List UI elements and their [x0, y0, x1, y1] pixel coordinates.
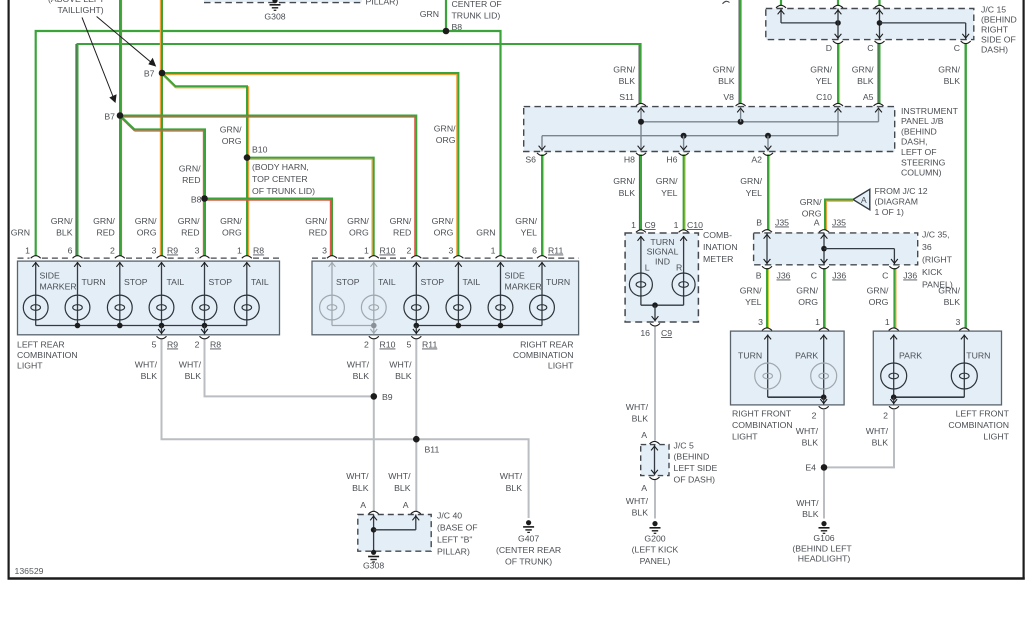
J/C 15 internal wiring: [778, 9, 970, 40]
wire GRN/BLK: J/C 15 pin C down right side to left front pin 3: [965, 43, 967, 328]
svg-text:5: 5: [152, 340, 157, 350]
svg-text:RIGHT: RIGHT: [981, 25, 1009, 35]
label GRN/ORG right branch: [434, 124, 456, 146]
label GRN/BLK V8: [713, 65, 735, 103]
svg-text:GRN/: GRN/: [220, 216, 242, 226]
bulb TURN right rear: [530, 295, 555, 320]
svg-text:GRN/: GRN/: [347, 216, 369, 226]
svg-text:COMBINATION: COMBINATION: [948, 420, 1009, 430]
svg-text:H6: H6: [666, 155, 677, 165]
svg-text:MARKER: MARKER: [505, 282, 542, 292]
svg-text:C10: C10: [816, 92, 832, 102]
svg-text:R10: R10: [380, 246, 396, 256]
svg-text:1: 1: [25, 246, 30, 256]
svg-text:YEL: YEL: [521, 228, 538, 238]
junction connector J/C 35,36 box: [754, 233, 918, 265]
svg-text:GRN/: GRN/: [938, 65, 960, 75]
bulb labels left front: [899, 351, 990, 361]
svg-text:BLK: BLK: [802, 438, 819, 448]
svg-text:METER: METER: [703, 254, 733, 264]
svg-text:TAIL: TAIL: [167, 277, 185, 287]
svg-text:ORG: ORG: [222, 136, 242, 146]
svg-text:LIGHT: LIGHT: [732, 432, 758, 442]
svg-text:GRN: GRN: [420, 9, 439, 19]
svg-text:GRN/: GRN/: [305, 216, 327, 226]
junction connector J/C 5 box: [641, 445, 669, 476]
label splice B7 lower: [104, 112, 115, 122]
svg-text:GRN/: GRN/: [852, 65, 874, 75]
label COMBINATION METER: [703, 230, 738, 264]
svg-text:A: A: [641, 430, 647, 440]
labels wire colors left rear: [11, 216, 243, 238]
svg-text:ORG: ORG: [222, 228, 242, 238]
svg-text:TURN: TURN: [966, 351, 990, 361]
label right front combination light: [732, 409, 793, 442]
svg-text:LIGHT: LIGHT: [548, 361, 574, 371]
svg-text:IND: IND: [655, 257, 670, 267]
svg-text:R9: R9: [167, 246, 178, 256]
svg-text:(BEHIND: (BEHIND: [981, 15, 1017, 25]
svg-text:J/C 15: J/C 15: [981, 5, 1006, 15]
wire GRN/RED stop branch: splice B7 lower via splice B8 to left pin 3: [120, 116, 205, 256]
svg-text:(BEHIND: (BEHIND: [674, 452, 710, 462]
svg-text:OF TRUNK): OF TRUNK): [505, 557, 552, 567]
splice E4: [821, 464, 828, 471]
svg-text:1: 1: [491, 246, 496, 256]
svg-text:BLK: BLK: [56, 228, 73, 238]
svg-text:LEFT FRONT: LEFT FRONT: [956, 409, 1010, 419]
svg-text:GRN/: GRN/: [390, 216, 412, 226]
svg-text:RIGHT FRONT: RIGHT FRONT: [732, 409, 792, 419]
right front combination light box: [731, 331, 845, 405]
label WHT/BLK R9: [135, 360, 158, 382]
bulb TAIL right rear (faded): [361, 295, 386, 320]
svg-text:BLK: BLK: [718, 76, 735, 86]
pin labels right rear bottom: [364, 340, 438, 350]
svg-text:S11: S11: [619, 92, 634, 102]
svg-text:ORG: ORG: [869, 297, 889, 307]
svg-text:BLK: BLK: [506, 483, 523, 493]
wire GRN/BLK: J/C 15 pin C down to J/B A5: [878, 43, 880, 103]
label WHT/BLK left front: [866, 426, 889, 448]
svg-text:A: A: [360, 500, 366, 510]
svg-text:6: 6: [532, 246, 537, 256]
svg-text:(BODY HARN,: (BODY HARN,: [252, 162, 309, 172]
svg-text:36: 36: [922, 242, 932, 252]
wire GRN/YEL: J/C 15 pin D down to J/B C10: [838, 43, 840, 103]
bulb SIDE MARKER left rear: [23, 295, 48, 320]
svg-text:RED: RED: [393, 228, 411, 238]
svg-text:GRN/: GRN/: [515, 216, 537, 226]
svg-text:WHT/: WHT/: [135, 360, 158, 370]
svg-text:R8: R8: [253, 246, 264, 256]
svg-text:BLK: BLK: [395, 371, 412, 381]
label G106: [792, 533, 852, 564]
wire GRN/ORG: J/C 36 pin C down to right front pin 1: [824, 268, 826, 328]
splice B9: [371, 393, 378, 400]
svg-text:INSTRUMENT: INSTRUMENT: [901, 106, 959, 116]
instrument panel J/B box: [524, 107, 895, 152]
label WHT/BLK R11: [389, 360, 412, 382]
label WHT/BLK lower right: [388, 471, 411, 493]
ground G106: [819, 521, 830, 533]
svg-text:GRN/: GRN/: [434, 124, 456, 134]
svg-text:B: B: [756, 218, 762, 228]
cut-off connector arc near top: [723, 1, 730, 4]
svg-text:C: C: [811, 271, 817, 281]
wire WHT/BLK: right rear pin 2 R10 down through splice B9 to J/C 40 pin A: [373, 340, 375, 512]
svg-text:STOP: STOP: [336, 277, 360, 287]
ground G308: [368, 550, 379, 562]
svg-text:C9: C9: [645, 220, 656, 230]
label WHT/BLK G407: [500, 471, 523, 493]
connector arcs: [31, 5, 971, 514]
left rear light internal wiring: [32, 262, 250, 334]
svg-text:ORG: ORG: [349, 228, 369, 238]
svg-text:3: 3: [758, 317, 763, 327]
bulb STOP 2 right rear: [404, 295, 429, 320]
svg-text:R10: R10: [380, 340, 396, 350]
label splice B7 upper: [144, 69, 155, 79]
svg-text:(LEFT KICK: (LEFT KICK: [632, 545, 679, 555]
label J/C 40 annotation: [437, 511, 478, 557]
leader arrow to splice B7 lower: [82, 17, 117, 103]
svg-text:G407: G407: [518, 534, 539, 544]
svg-text:GRN/: GRN/: [135, 216, 157, 226]
svg-text:3: 3: [152, 246, 157, 256]
svg-text:1: 1: [631, 220, 636, 230]
svg-text:L: L: [645, 263, 650, 273]
svg-text:WHT/: WHT/: [389, 360, 412, 370]
svg-text:A: A: [641, 483, 647, 493]
bulb turn signal indicator L: [629, 273, 652, 296]
svg-text:ORG: ORG: [798, 297, 818, 307]
svg-text:J/C 5: J/C 5: [674, 441, 694, 451]
label GRN/BLK A5: [852, 65, 874, 103]
wire WHT/BLK: J/C 5 pin A down to ground G200: [654, 479, 656, 518]
svg-text:RED: RED: [96, 228, 114, 238]
label J/C 5 pin A upper: [641, 430, 647, 440]
svg-text:(BEHIND LEFT: (BEHIND LEFT: [792, 544, 852, 554]
svg-text:E4: E4: [805, 463, 816, 473]
label GRN/YEL H6: [656, 176, 678, 198]
svg-text:TAILLIGHT): TAILLIGHT): [58, 5, 104, 15]
svg-text:MARKER: MARKER: [40, 282, 77, 292]
svg-text:DASH): DASH): [981, 45, 1008, 55]
svg-text:STOP: STOP: [209, 277, 233, 287]
svg-text:TURN: TURN: [546, 277, 570, 287]
wire GRN/RED stop branch: splice B8 right to right rear pin 3: [205, 199, 332, 256]
splice B11: [413, 436, 420, 443]
meter pin labels top: [631, 220, 703, 230]
svg-text:R11: R11: [422, 340, 437, 350]
svg-text:C: C: [867, 43, 873, 53]
label WHT/BLK right front: [796, 426, 819, 448]
label WHT/BLK meter upper: [626, 402, 649, 424]
svg-text:YEL: YEL: [661, 188, 678, 198]
splice B7 upper: [159, 70, 166, 77]
svg-text:LEFT SIDE: LEFT SIDE: [674, 463, 718, 473]
label splice B11: [425, 445, 440, 455]
label J/C 40 pins A A: [360, 500, 409, 510]
svg-text:A: A: [861, 195, 867, 205]
bulb TAIL 2 left rear: [234, 295, 259, 320]
svg-text:YEL: YEL: [745, 297, 762, 307]
svg-text:WHT/: WHT/: [866, 426, 889, 436]
svg-text:GRN: GRN: [476, 228, 495, 238]
svg-text:1: 1: [885, 317, 890, 327]
svg-text:BLK: BLK: [353, 371, 370, 381]
svg-text:R: R: [676, 263, 682, 273]
label J/C 15 annotation: [981, 5, 1017, 55]
junction connector J/C 15 box: [766, 9, 974, 40]
label instrument panel annotation: [901, 106, 959, 178]
label G407: [496, 534, 561, 567]
svg-text:PANEL J/B: PANEL J/B: [901, 116, 944, 126]
svg-text:TURN: TURN: [82, 277, 106, 287]
svg-text:DASH,: DASH,: [901, 137, 928, 147]
svg-text:BLK: BLK: [352, 483, 369, 493]
instrument panel J/B internal wiring: [539, 107, 882, 152]
label GRN trunk: [420, 9, 439, 19]
svg-text:TAIL: TAIL: [251, 277, 269, 287]
svg-text:3: 3: [195, 246, 200, 256]
label GRN/YEL A2: [740, 176, 762, 198]
wire WHT/BLK: left rear pin 2 R8 down and right to splice B9: [205, 340, 374, 397]
svg-text:RED: RED: [181, 228, 199, 238]
svg-text:G308: G308: [363, 561, 384, 571]
svg-text:KICK: KICK: [922, 267, 942, 277]
svg-text:STEERING: STEERING: [901, 157, 946, 167]
svg-text:WHT/: WHT/: [500, 471, 523, 481]
svg-text:S6: S6: [525, 155, 536, 165]
svg-text:LIGHT: LIGHT: [17, 361, 43, 371]
bulb PARK right front (faded): [811, 363, 837, 389]
svg-text:G308: G308: [264, 12, 285, 22]
svg-text:C: C: [882, 271, 888, 281]
svg-text:GRN/: GRN/: [93, 216, 115, 226]
svg-text:(RIGHT: (RIGHT: [922, 255, 953, 265]
svg-text:COMBINATION: COMBINATION: [513, 350, 574, 360]
right rear light internal wiring (faded stop/tail): [329, 262, 378, 334]
label G200: [632, 534, 679, 567]
svg-text:WHT/: WHT/: [347, 360, 370, 370]
label GRN/ORG J36 C1: [796, 286, 818, 308]
wire GRN side marker net: left pin 1 up, across at y31 through splice B8, down to right pin 1: [36, 31, 501, 256]
pin labels left rear bottom: [152, 340, 222, 350]
leader arrow to splice B7 upper: [97, 17, 157, 67]
svg-text:SIDE: SIDE: [505, 271, 525, 281]
svg-text:J36: J36: [777, 271, 791, 281]
svg-text:GRN/: GRN/: [800, 197, 822, 207]
svg-text:LIGHT: LIGHT: [983, 432, 1009, 442]
svg-text:RED: RED: [182, 175, 200, 185]
wire GRN stub from splice B8 up to trunk lid: [445, 0, 447, 31]
svg-text:WHT/: WHT/: [179, 360, 202, 370]
wire GRN/BLK: J/B H8 down to combination meter pin 1 C9: [640, 154, 642, 230]
svg-text:R8: R8: [210, 340, 221, 350]
svg-text:PANEL): PANEL): [640, 556, 671, 566]
svg-text:PILLAR): PILLAR): [437, 547, 470, 557]
svg-text:WHT/: WHT/: [346, 471, 369, 481]
junction connector J/C 40 box: [358, 515, 431, 552]
label WHT/BLK R8: [179, 360, 202, 382]
bulb SIDE MARKER right rear: [488, 295, 513, 320]
bulb TURN right front (faded): [755, 363, 781, 389]
wire WHT/BLK: right front pin 2 down through splice E4 to ground G106: [823, 410, 825, 519]
svg-text:C10: C10: [687, 220, 703, 230]
svg-text:GRN: GRN: [11, 228, 30, 238]
wire GRN/RED stop branch: splice B7 lower right to right rear pin 2: [120, 116, 416, 256]
svg-text:WHT/: WHT/: [626, 402, 649, 412]
label WHT/BLK R10: [347, 360, 370, 382]
svg-text:CENTER OF: CENTER OF: [452, 0, 502, 9]
svg-text:PILLAR): PILLAR): [366, 0, 399, 7]
svg-text:SIGNAL: SIGNAL: [647, 247, 679, 257]
wire WHT/BLK: left rear pin 5 R9 down and right to splice B11: [162, 340, 417, 440]
svg-text:SIDE OF: SIDE OF: [981, 35, 1016, 45]
label J/C 5 pin A lower: [641, 483, 647, 493]
svg-text:B7: B7: [104, 112, 115, 122]
label GRN/RED mid: [179, 164, 201, 186]
label splice B8: [191, 195, 202, 205]
svg-text:GRN/: GRN/: [713, 65, 735, 75]
svg-text:C9: C9: [661, 328, 672, 338]
svg-text:WHT/: WHT/: [796, 426, 819, 436]
svg-text:GRN/: GRN/: [179, 164, 201, 174]
svg-text:BLK: BLK: [619, 188, 636, 198]
svg-text:BLK: BLK: [619, 76, 636, 86]
svg-text:2: 2: [195, 340, 200, 350]
svg-text:(BEHIND: (BEHIND: [901, 126, 937, 136]
svg-text:GRN/: GRN/: [178, 216, 200, 226]
svg-text:LEFT "B": LEFT "B": [437, 535, 472, 545]
svg-text:2: 2: [812, 411, 817, 421]
wire green stub above J/C 15 left: [780, 0, 782, 6]
combination meter labels: [645, 237, 682, 273]
svg-text:RED: RED: [309, 228, 327, 238]
svg-text:136529: 136529: [15, 566, 44, 576]
label B8 trunk lid: [452, 0, 502, 32]
J/C 40 internal wiring: [370, 515, 419, 553]
bulb turn signal indicator R: [672, 273, 695, 296]
svg-text:GRN/: GRN/: [938, 286, 960, 296]
svg-text:PARK: PARK: [899, 351, 922, 361]
svg-text:6: 6: [68, 246, 73, 256]
wire GRN/YEL: J/B A2 down to J/C 35 pin B J35: [768, 154, 770, 230]
svg-text:J/C 40: J/C 40: [437, 511, 462, 521]
splice B8 (top): [443, 28, 450, 35]
svg-text:BLK: BLK: [141, 371, 158, 381]
bulb TAIL left rear: [149, 295, 174, 320]
svg-text:1 OF 1): 1 OF 1): [875, 207, 905, 217]
splice B8 (left): [201, 195, 208, 202]
labels wire colors right rear: [305, 216, 537, 238]
combination meter internal wiring: [638, 236, 688, 322]
svg-text:GRN/: GRN/: [220, 125, 242, 135]
wire GRN/ORG tail branch: splice B10 right to right rear pin 1 R10: [247, 158, 374, 256]
label splice B9: [382, 392, 393, 402]
svg-text:C: C: [954, 43, 960, 53]
bulb TURN left front: [951, 363, 977, 389]
wire WHT/BLK: left front pin 2 down and left to splice E4: [824, 410, 894, 467]
label WHT/BLK G106: [796, 498, 819, 519]
svg-text:GRN/: GRN/: [656, 176, 678, 186]
splice B10: [244, 154, 251, 161]
wire GRN/YEL: J/C 36 pin B down to right front pin 3: [767, 268, 769, 328]
svg-text:COMBINATION: COMBINATION: [17, 350, 78, 360]
svg-text:3: 3: [322, 246, 327, 256]
svg-text:BLK: BLK: [394, 483, 411, 493]
svg-text:2: 2: [364, 340, 369, 350]
svg-text:STOP: STOP: [421, 277, 445, 287]
svg-text:TURN: TURN: [738, 351, 762, 361]
svg-text:3: 3: [955, 317, 960, 327]
label above left taillight: [48, 0, 105, 15]
svg-text:J35: J35: [775, 218, 789, 228]
front bottom pin numbers: [812, 411, 889, 421]
pin labels left rear top: [25, 246, 264, 256]
svg-text:1: 1: [674, 220, 679, 230]
combination meter box: [625, 233, 698, 322]
svg-text:GRN/: GRN/: [613, 65, 635, 75]
svg-text:ORG: ORG: [436, 135, 456, 145]
svg-text:BLK: BLK: [857, 76, 874, 86]
label GRN/ORG J36 C2: [867, 286, 889, 308]
wire GRN/YEL: J/B H6 down to combination meter pin 1 C10: [684, 154, 686, 230]
svg-text:BLK: BLK: [944, 76, 961, 86]
label G308 bottom: [363, 561, 384, 571]
wire GRN/ORG: J/C 36 pin C down to left front pin 1: [894, 268, 896, 328]
svg-text:BLK: BLK: [802, 509, 819, 519]
svg-text:GRN/: GRN/: [51, 216, 73, 226]
svg-text:16: 16: [640, 328, 650, 338]
svg-text:BLK: BLK: [944, 297, 961, 307]
svg-text:B10: B10: [252, 145, 268, 155]
wire WHT/BLK: right rear pin 5 R11 down through splice B11 to J/C 40 pin A: [415, 340, 417, 512]
svg-text:STOP: STOP: [124, 277, 148, 287]
svg-text:(BASE OF: (BASE OF: [437, 523, 478, 533]
J36 pin labels: [756, 271, 918, 281]
label right rear combination light: [513, 340, 574, 371]
svg-text:WHT/: WHT/: [626, 496, 649, 506]
J/C 5 internal wiring: [651, 445, 658, 476]
svg-text:GRN/: GRN/: [740, 176, 762, 186]
label G308 top: [264, 12, 285, 22]
svg-text:ORG: ORG: [137, 228, 157, 238]
wire WHT/BLK: splice B11 right and down to ground G407: [416, 439, 528, 518]
label left rear combination light: [17, 340, 78, 371]
label GRN/YEL J36 B: [740, 286, 762, 308]
splice B7 lower: [117, 112, 124, 119]
bulb labels left rear: [40, 271, 269, 292]
label GRN/YEL C10: [810, 65, 832, 103]
bulb STOP right rear (faded): [320, 295, 345, 320]
wire GRN/BLK: left pin 6 up, across at y44, down to J/B S11: [76, 44, 641, 256]
wire GRN/ORG tail branch: splice B7 via splice B10 to left pin 1 R8: [162, 73, 249, 256]
svg-text:H8: H8: [624, 155, 635, 165]
right front light internal wiring: [764, 335, 827, 405]
svg-text:RIGHT REAR: RIGHT REAR: [520, 340, 573, 350]
label splice E4: [805, 463, 816, 473]
svg-text:1: 1: [237, 246, 242, 256]
svg-text:HEADLIGHT): HEADLIGHT): [798, 554, 851, 564]
svg-text:GRN/: GRN/: [810, 65, 832, 75]
svg-text:B8: B8: [191, 195, 202, 205]
svg-text:GRN/: GRN/: [613, 176, 635, 186]
svg-text:TURN: TURN: [650, 237, 674, 247]
label GRN/ORG mid: [220, 125, 242, 147]
